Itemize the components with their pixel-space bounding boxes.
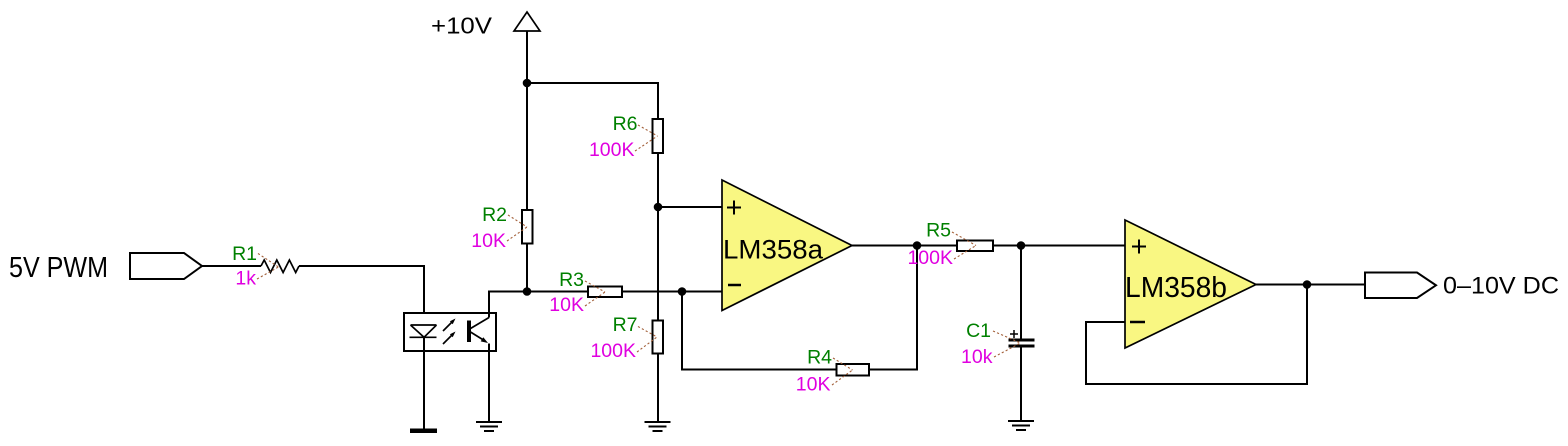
junction +10V rail [523, 79, 532, 88]
svg-text:+10V: +10V [431, 13, 492, 39]
value R3 10K [549, 294, 584, 316]
value R5 100K [907, 247, 953, 269]
wire divider to +input U1a [658, 206, 722, 208]
svg-text:R7: R7 [613, 314, 638, 336]
wire feedback down from -input node [682, 292, 837, 370]
wire opto emitter to ground [488, 344, 490, 423]
leader R4 [833, 358, 853, 370]
op-amp U1b LM358b [1125, 220, 1256, 348]
wire +10V rail to R6 [527, 83, 658, 119]
power +10V symbol [514, 12, 540, 83]
wire filter node to C1 [1020, 246, 1022, 339]
svg-text:10K: 10K [549, 294, 584, 316]
wire R1 to opto anode [299, 266, 424, 337]
port 5V PWM label [9, 252, 108, 284]
label R4 [807, 347, 832, 369]
label R1 [232, 243, 257, 265]
label R2 [482, 204, 507, 226]
svg-text:LM358b: LM358b [1125, 272, 1227, 304]
svg-text:LM358a: LM358a [723, 235, 824, 265]
label C1 [966, 320, 991, 342]
svg-text:10K: 10K [796, 374, 831, 396]
optocoupler box [404, 313, 496, 351]
value R4 10K [796, 374, 831, 396]
svg-text:R3: R3 [559, 269, 584, 291]
wire divider down to R7 [657, 207, 659, 321]
label R7 [613, 314, 638, 336]
wire R2 to node A [526, 244, 528, 292]
svg-text:100K: 100K [907, 247, 953, 269]
svg-text:100K: 100K [589, 139, 635, 161]
wire node A to R3 [527, 291, 588, 293]
capacitor C1 [1009, 330, 1035, 346]
signal ground bar [410, 429, 437, 434]
resistor R6 [653, 119, 664, 153]
leader R7 [638, 327, 657, 338]
leader R6 [638, 125, 658, 136]
svg-text:R5: R5 [926, 220, 951, 242]
ground G1 [476, 422, 502, 431]
label R6 [613, 113, 638, 135]
junction divider node [654, 203, 663, 212]
wire U1b output [1256, 284, 1365, 286]
opto light arrow 2 [443, 319, 456, 332]
wire +10V to R2 [526, 83, 528, 210]
resistor R2 [522, 210, 533, 244]
junction output U1b [1303, 280, 1312, 289]
resistor R4 [837, 364, 870, 376]
leader R3 10K [585, 292, 605, 306]
opto phototransistor [467, 318, 489, 344]
svg-text:100K: 100K [590, 340, 636, 362]
svg-text:5V PWM: 5V PWM [9, 252, 108, 284]
wire input to R1 [202, 265, 261, 267]
wire R7 to ground [657, 354, 659, 423]
output port connector [1365, 273, 1436, 299]
svg-text:R6: R6 [613, 113, 638, 135]
port 0-10V DC label [1443, 273, 1559, 300]
leader R4 10K [832, 370, 853, 385]
op-amp U1a LM358a [722, 180, 852, 311]
svg-text:C1: C1 [966, 320, 991, 342]
value R7 100K [590, 340, 636, 362]
wire R4 to output node [869, 246, 917, 370]
wire R3 to -input U1a [622, 291, 722, 293]
svg-text:1k: 1k [235, 268, 256, 290]
svg-text:R4: R4 [807, 347, 832, 369]
leader R6 100K [635, 136, 658, 151]
resistor R3 [588, 287, 622, 298]
svg-text:0–10V DC: 0–10V DC [1443, 273, 1559, 300]
opto light arrow 1 [443, 332, 456, 345]
resistor R7 [653, 321, 664, 354]
leader R2 [508, 215, 527, 227]
junction node A [523, 287, 532, 296]
wire R5 to +input U1b [993, 245, 1125, 247]
leader R2 10K [507, 227, 527, 241]
svg-text:10k: 10k [961, 346, 993, 368]
svg-text:10K: 10K [471, 230, 506, 252]
label R3 [559, 269, 584, 291]
leader R1 [258, 254, 279, 268]
wire opto collector to node [489, 292, 527, 318]
value C1 10k [961, 346, 993, 368]
leader 1k [257, 267, 279, 279]
input port connector [130, 253, 202, 279]
opto LED [410, 325, 437, 337]
value 1k [235, 268, 256, 290]
leader R5 [952, 232, 976, 246]
wire R6 to divider node [657, 153, 659, 207]
junction -input node [678, 287, 687, 296]
resistor R5 [957, 241, 993, 252]
value R2 10K [471, 230, 506, 252]
svg-text:R2: R2 [482, 204, 507, 226]
leader R3 [585, 281, 605, 292]
wire C1 to ground [1020, 348, 1022, 422]
junction filter node [1017, 241, 1026, 250]
power +10V label [431, 13, 492, 39]
ground G3 [1008, 421, 1034, 430]
ground G2 [645, 422, 671, 431]
wire U1a output to R5 [852, 245, 957, 247]
junction output U1a [913, 241, 922, 250]
leader C1 10k [994, 343, 1021, 357]
leader R5 100K [954, 246, 976, 260]
leader C1 [993, 331, 1021, 343]
wire LED cathode to ground [423, 337, 425, 429]
value R6 100K [589, 139, 635, 161]
label R5 [926, 220, 951, 242]
leader R7 100K [637, 337, 657, 352]
svg-text:R1: R1 [232, 243, 257, 265]
resistor R1 [261, 260, 299, 273]
wire feedback U1b [1086, 285, 1307, 385]
